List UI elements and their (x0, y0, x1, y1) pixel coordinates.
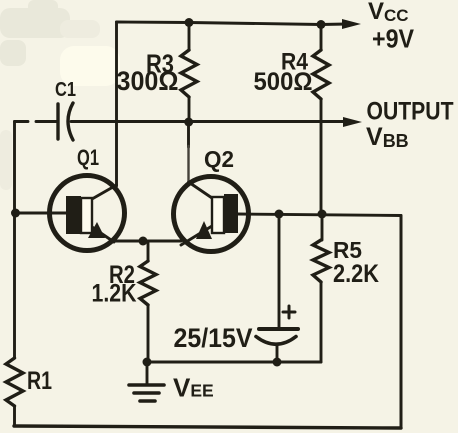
resistor R2 (140, 261, 156, 305)
junction node Q2 base / capacitor (275, 210, 284, 219)
transistor Q2 (174, 177, 249, 252)
svg-text:2.2K: 2.2K (333, 260, 379, 288)
capacitor C1 (58, 103, 73, 140)
svg-text:Q2: Q2 (204, 146, 234, 172)
wire right vertical rail (400, 216, 403, 428)
wire R4 top stub (320, 25, 323, 51)
wire Q1 collector diagonal (92, 185, 117, 199)
svg-text:500Ω: 500Ω (254, 68, 313, 96)
wire Q2 emitter diagonal (181, 226, 212, 245)
junction node top rail / R3 (185, 18, 194, 27)
wire Q1 base lead (16, 212, 67, 215)
junction node top rail / R4 (317, 20, 326, 29)
resistor R3 (181, 50, 197, 97)
junction node VEE line / R2 (143, 358, 152, 367)
junction node Q2 base / R5 (318, 210, 327, 219)
ground VEE symbol (129, 385, 164, 401)
plus sign of electrolytic (283, 306, 295, 318)
wire R2 top stub (143, 241, 148, 261)
wire Q1 emitter diagonal (92, 227, 114, 242)
svg-text:1.2K: 1.2K (92, 280, 137, 308)
wire VEE stub (146, 362, 149, 384)
svg-text:OUTPUT: OUTPUT (367, 98, 454, 126)
wire R2 bottom stub (146, 305, 148, 362)
junction node output / R3 bottom (184, 118, 193, 127)
svg-text:Q1: Q1 (77, 145, 99, 170)
wire left drop from top rail to Q1 collector (115, 22, 118, 186)
wire R3 bottom stub (188, 97, 191, 122)
wire bottom emitter supply line (147, 361, 321, 364)
wire top rail VCC (117, 22, 348, 25)
wire output line horizontal (15, 120, 29, 123)
wire Q2 collector drop to output node (187, 122, 190, 147)
svg-text:+9V: +9V (372, 24, 415, 54)
wire R5 bottom stub (320, 282, 323, 362)
arrow OUTPUT (343, 117, 362, 127)
junction node emitters / R2 (139, 237, 148, 246)
wire R3 top stub (188, 23, 191, 51)
resistor R5 (313, 240, 329, 282)
svg-text:C1: C1 (55, 79, 76, 101)
junction node left rail / Q1 base (11, 209, 20, 218)
svg-text:300Ω: 300Ω (117, 66, 179, 96)
wire Q2 collector diagonal (189, 182, 213, 198)
wire R4 down through output line to Q2 base node (320, 99, 323, 214)
wire left vertical rail (13, 122, 16, 359)
svg-text:25/15V: 25/15V (174, 323, 253, 353)
junction node VEE line / capacitor (273, 358, 282, 367)
wire left rail below R1 (13, 406, 16, 426)
resistor R1 (6, 358, 23, 406)
resistor R4 (313, 50, 329, 99)
wire R5 top stub (321, 214, 324, 240)
wire capacitor branch top (278, 214, 281, 327)
wire bottom rail (14, 426, 401, 428)
wire emitter joining line Q1-Q2 (111, 240, 181, 243)
wire capacitor bottom stub (276, 346, 279, 362)
wire Q2 base line to right rail (237, 214, 401, 216)
electrolytic capacitor 25/15V (256, 329, 298, 344)
transistor Q1 (50, 176, 125, 251)
arrow VCC (342, 19, 361, 29)
svg-text:R1: R1 (27, 367, 52, 395)
